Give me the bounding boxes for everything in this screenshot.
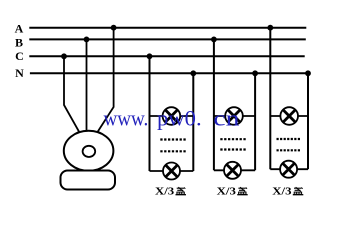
node group2 tap on N (252, 70, 258, 76)
svg-text:B: B (15, 36, 23, 50)
neutral bus N (30, 72, 308, 74)
svg-text:X/3: X/3 (217, 187, 236, 198)
group 3 right rail (from N) (307, 73, 309, 169)
group 2 ellipsis dots row 2 (220, 148, 245, 150)
motor shaft (83, 146, 96, 157)
node group3 tap on A (267, 25, 273, 31)
svg-text:A: A (15, 22, 24, 36)
node group1 tap on N (190, 70, 196, 76)
node motor tap on A (111, 25, 117, 31)
group 1 ellipsis dots row 1 (160, 138, 185, 140)
group 2 top rung wire (214, 115, 255, 117)
group 1 top rung wire (150, 115, 194, 117)
group 3 ellipsis dots row 1 (277, 138, 301, 140)
lamp group1 bottom (163, 163, 180, 180)
group 1 bottom rung wire (150, 170, 194, 172)
lamp group1 top (163, 107, 181, 125)
node group3 tap on N (305, 70, 311, 76)
group 2 left rail (from B) (213, 39, 215, 170)
group 2 bottom rung wire (214, 169, 255, 171)
svg-text:cn: cn (213, 106, 239, 131)
group 2 ellipsis dots row 1 (220, 138, 245, 140)
svg-text:X/3: X/3 (272, 187, 291, 198)
svg-text:www.: www. (104, 106, 149, 131)
label group3 X/3 lamps (272, 187, 303, 198)
group 1 left rail (from C) (149, 56, 151, 171)
wire motor phase B drop (86, 39, 88, 130)
lamp group3 top (280, 107, 298, 125)
motor base (61, 171, 116, 190)
node motor tap on B (84, 37, 90, 43)
lamp group3 bottom (280, 161, 297, 178)
group 3 left rail (from A) (269, 28, 271, 170)
wire motor phase A drop (98, 28, 114, 132)
node group2 tap on B (211, 37, 217, 43)
group 3 ellipsis dots row 2 (277, 149, 301, 151)
motor M body (64, 131, 114, 171)
phase bus A (29, 27, 306, 29)
group 3 bottom rung wire (270, 168, 308, 170)
label group1 X/3 lamps (155, 187, 186, 198)
node group1 tap on C (147, 53, 153, 59)
label group2 X/3 lamps (217, 187, 248, 198)
svg-text:C: C (15, 49, 24, 63)
phase bus B (29, 38, 306, 40)
node motor tap on C (61, 53, 67, 59)
group 1 right rail (from N) (192, 73, 194, 171)
group 1 ellipsis dots row 2 (160, 150, 185, 152)
phase bus C (29, 55, 304, 57)
svg-text:X/3: X/3 (155, 187, 174, 198)
wire motor phase C drop (64, 56, 80, 132)
svg-text:pw0.: pw0. (157, 106, 202, 131)
group 3 top rung wire (270, 115, 308, 117)
lamp group2 bottom (224, 162, 241, 179)
svg-text:N: N (15, 66, 24, 80)
group 2 right rail (from N) (254, 73, 256, 170)
lamp group2 top (225, 107, 243, 125)
